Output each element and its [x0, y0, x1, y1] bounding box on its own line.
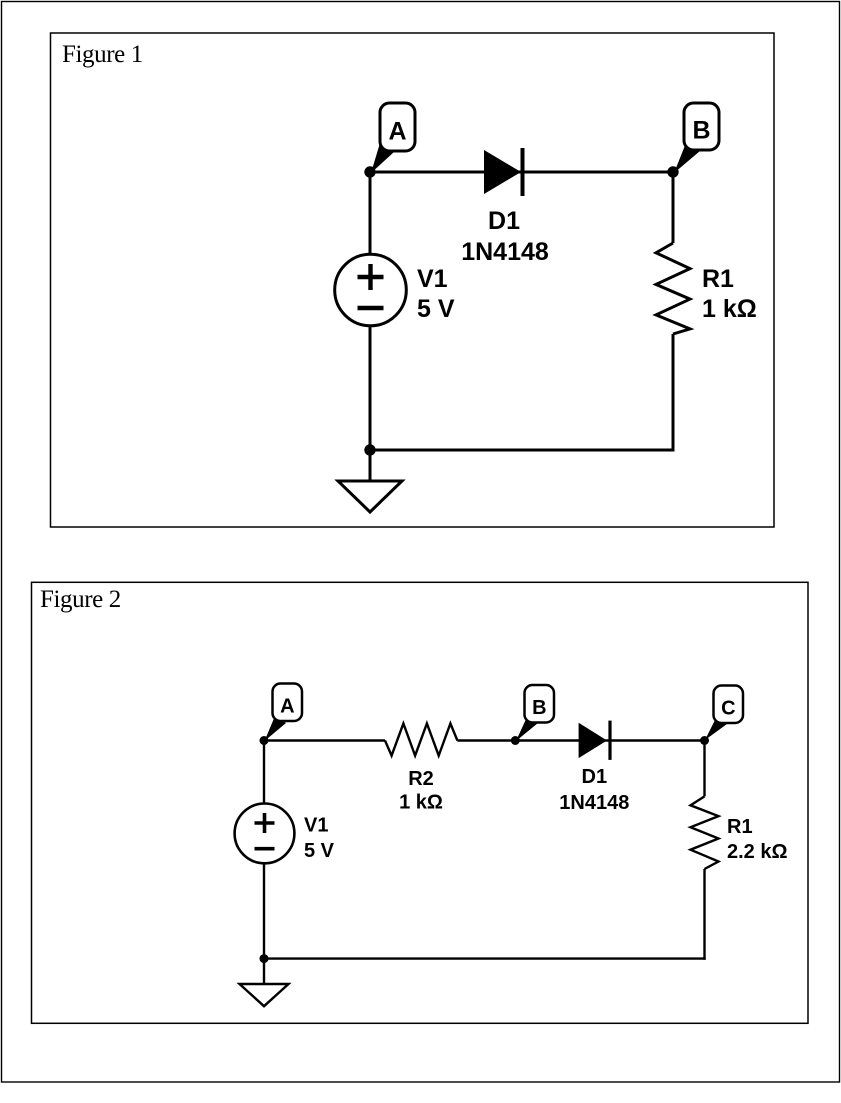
voltage source V1 (figure 1) [335, 254, 407, 326]
wire R2 right through node B and diode to node C [457, 739, 704, 741]
svg-text:1 kΩ: 1 kΩ [399, 792, 443, 814]
svg-text:D1: D1 [582, 766, 608, 788]
svg-text:5 V: 5 V [417, 295, 455, 323]
junction dot bottom rail (figure 1) [364, 444, 375, 455]
ground (figure 1) [338, 481, 402, 512]
junction dot bottom rail (figure 2) [260, 954, 269, 963]
wire R1 bottom to bottom rail [672, 334, 675, 452]
voltage source V1 (figure 2) [235, 804, 295, 864]
resistor R1 (figure 2) [691, 796, 719, 869]
svg-text:R1: R1 [702, 265, 734, 293]
figure 1 frame [51, 33, 775, 527]
svg-text:C: C [721, 698, 735, 720]
svg-text:B: B [692, 117, 710, 145]
wire R1 bottom to bottom rail [703, 869, 705, 960]
wire node A down to V1 top [263, 741, 265, 804]
junction dot node B (figure 1) [667, 166, 678, 177]
resistor R1 (figure 1) [656, 243, 690, 334]
wire V1 bottom to bottom rail [369, 325, 372, 450]
svg-text:B: B [532, 697, 546, 719]
svg-text:1N4148: 1N4148 [559, 792, 629, 814]
wire node B down to R1 top [672, 172, 675, 243]
svg-text:Figure 2: Figure 2 [40, 586, 121, 613]
svg-text:5 V: 5 V [304, 840, 335, 862]
wire ground stub [263, 959, 265, 984]
svg-text:R1: R1 [727, 816, 753, 838]
wire node A down to V1 top [369, 172, 372, 255]
node C flag (figure 2) [705, 686, 743, 741]
wire ground stub [369, 450, 372, 481]
node B flag (figure 1) [674, 103, 719, 173]
resistor R2 (figure 2) [385, 724, 457, 756]
svg-text:D1: D1 [488, 207, 520, 235]
wire node A to R2 left [264, 739, 385, 741]
wire node A to node B (top) [370, 171, 673, 174]
node B flag (figure 2) [516, 685, 554, 741]
svg-text:A: A [280, 696, 294, 718]
svg-text:A: A [388, 118, 406, 146]
junction dot node A (figure 1) [364, 166, 375, 177]
wire node C down to R1 top [703, 741, 705, 797]
svg-text:R2: R2 [408, 768, 434, 790]
diode D1 (figure 1) [484, 148, 523, 196]
wire bottom rail [370, 449, 675, 452]
wire bottom rail [264, 957, 706, 959]
svg-text:Figure 1: Figure 1 [62, 41, 143, 68]
svg-text:2.2 kΩ: 2.2 kΩ [727, 841, 788, 863]
diode D1 (figure 2) [579, 721, 610, 760]
junction dot node A (figure 2) [260, 736, 269, 745]
svg-text:V1: V1 [304, 815, 328, 837]
svg-text:1N4148: 1N4148 [461, 238, 549, 266]
svg-text:V1: V1 [417, 265, 448, 293]
ground (figure 2) [240, 984, 289, 1006]
junction dot node B (figure 2) [511, 736, 520, 745]
node A flag (figure 2) [265, 684, 303, 742]
node A flag (figure 1) [371, 103, 415, 173]
figure 2 frame [32, 582, 809, 1023]
junction dot node C (figure 2) [700, 736, 709, 745]
svg-text:1 kΩ: 1 kΩ [702, 295, 757, 323]
wire V1 bottom to bottom rail [263, 864, 265, 959]
